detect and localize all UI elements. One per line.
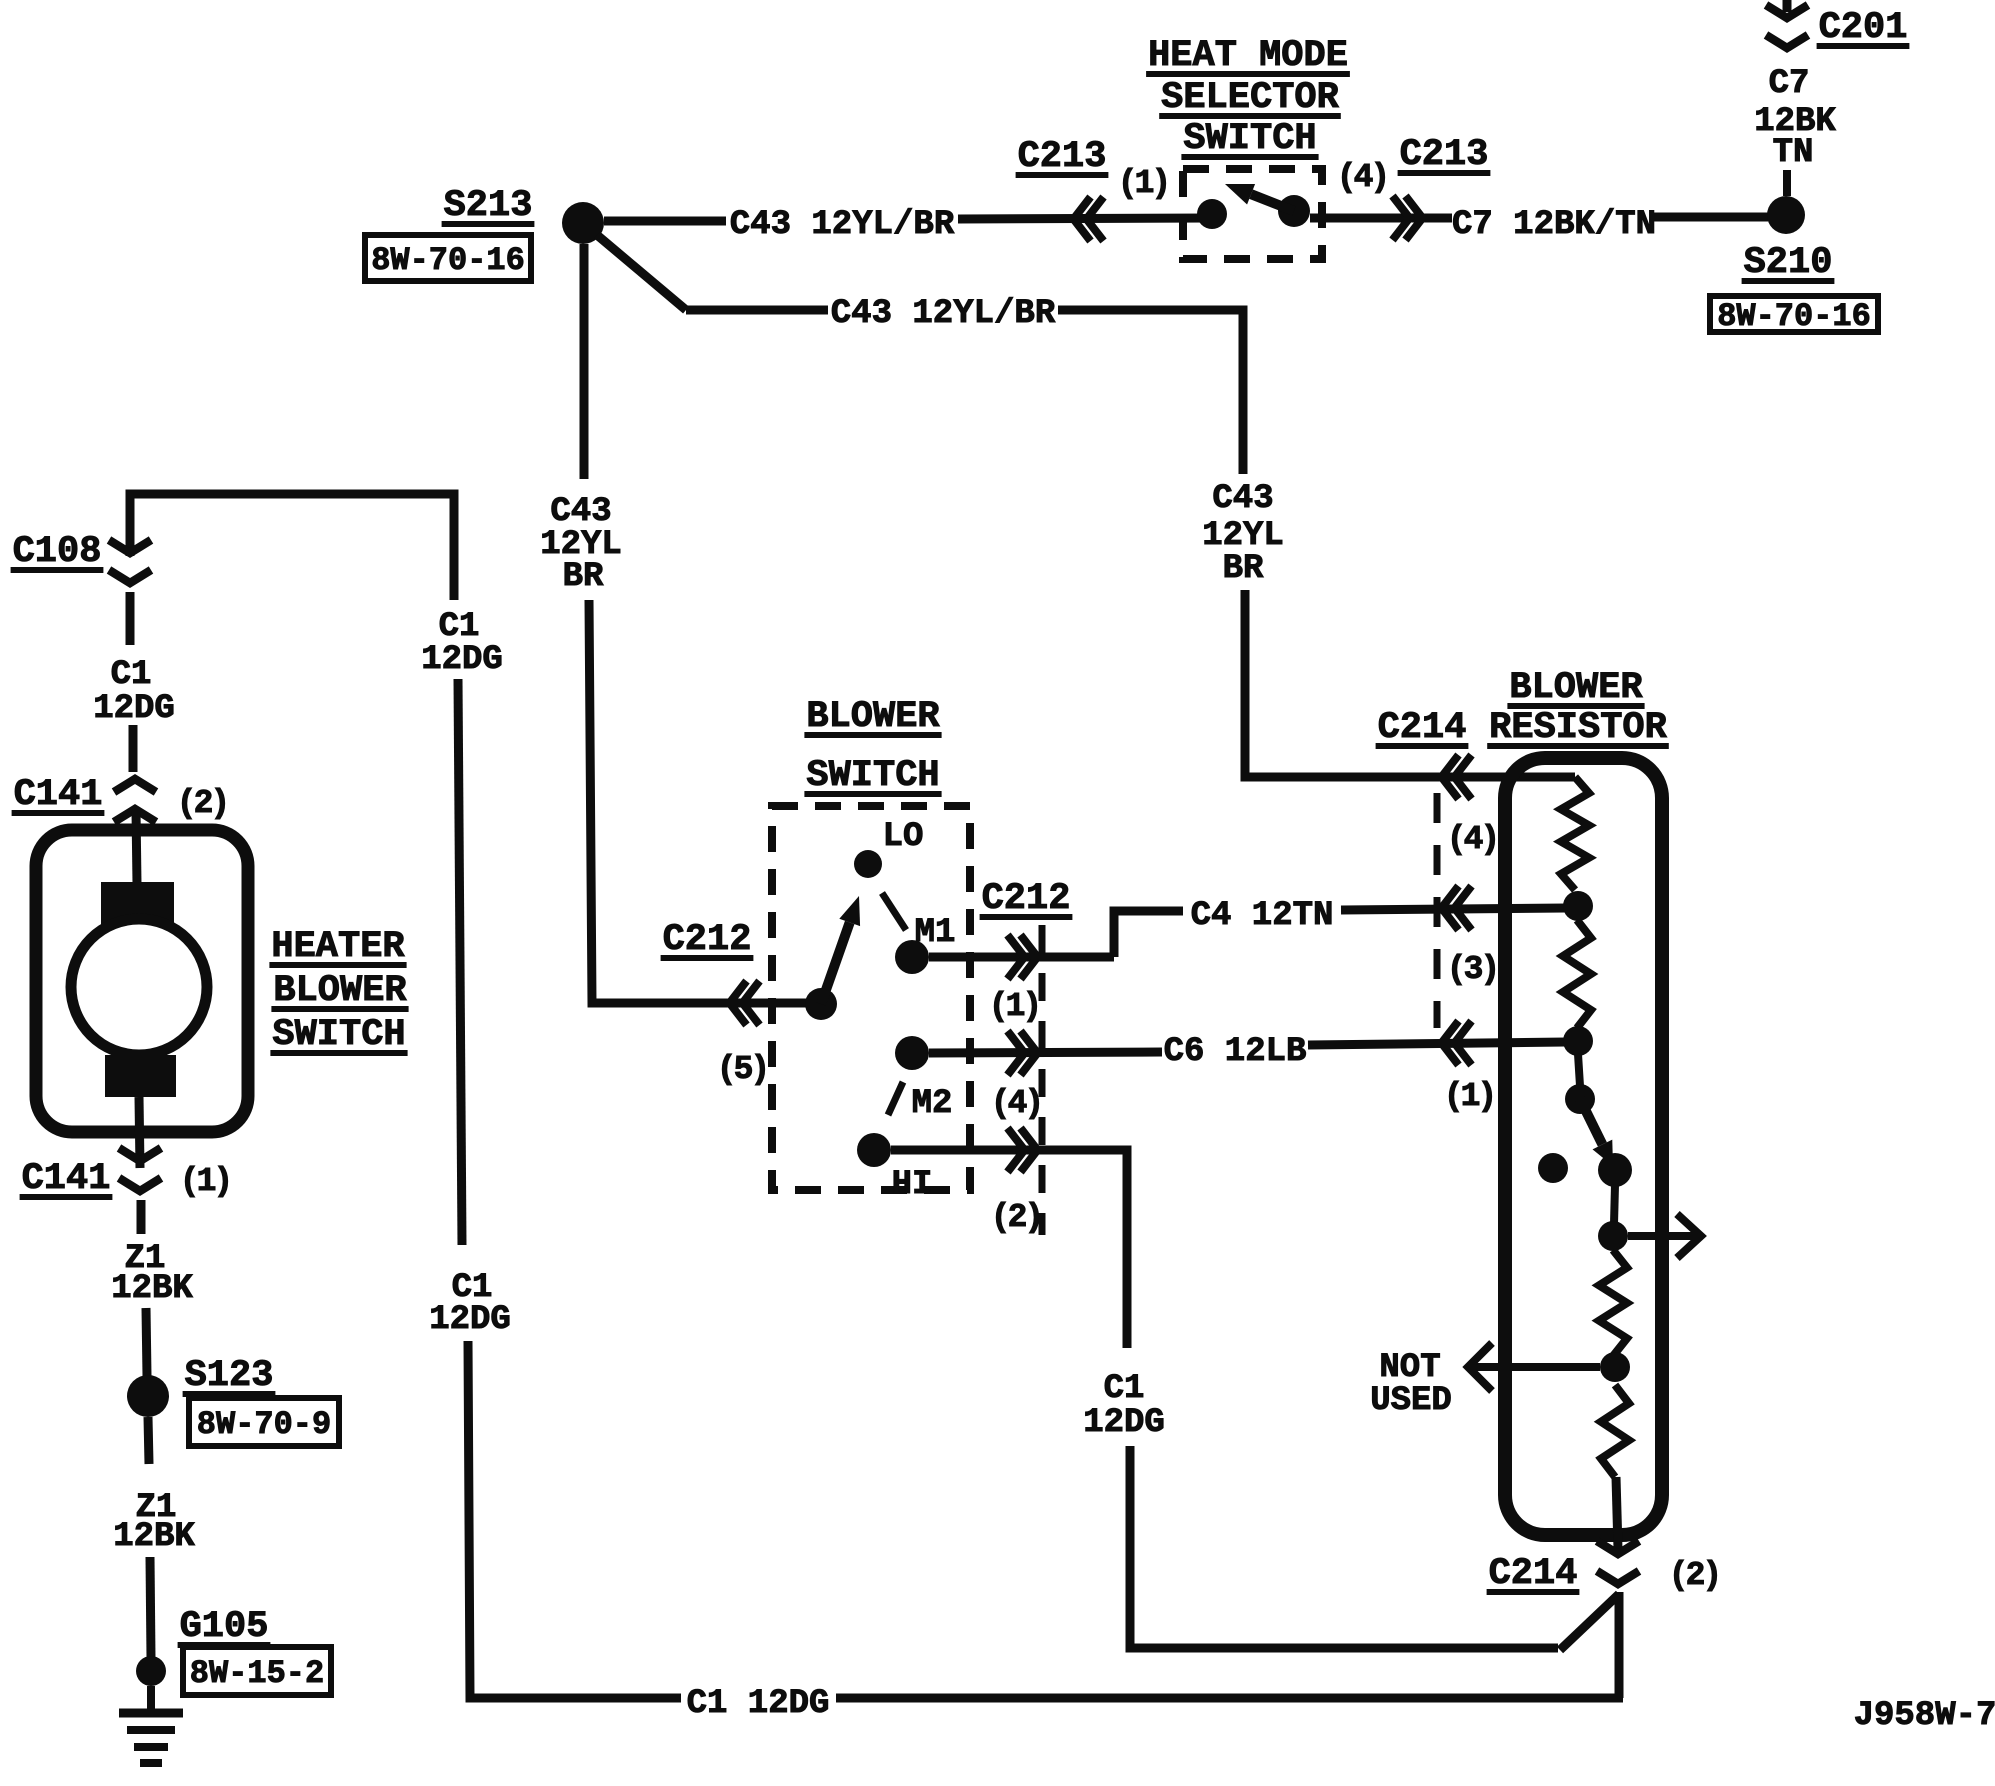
wire C43 drop to blower resistor	[1245, 590, 1575, 777]
wire label 12DG (C1 run upper)	[421, 641, 503, 679]
wire label C4 12TN	[1191, 897, 1334, 935]
resistor node 3	[1565, 1084, 1595, 1114]
pin number (5) C212	[717, 1051, 767, 1088]
svg-text:12BK: 12BK	[113, 1518, 195, 1556]
label SWITCH (blower)	[804, 755, 941, 797]
label C213 left	[1016, 136, 1109, 178]
svg-text:(4): (4)	[991, 1085, 1041, 1122]
svg-text:(4): (4)	[1337, 159, 1387, 196]
svg-text:BLOWER: BLOWER	[806, 696, 940, 738]
wire label C43 12YL/BR	[730, 206, 955, 244]
connector C108 chevron	[109, 540, 151, 583]
resistor node 6	[1600, 1352, 1630, 1382]
wire from C108 to C1 junction	[130, 494, 454, 600]
svg-text:BLOWER: BLOWER	[273, 970, 407, 1012]
wire label C43 (right drop)	[1212, 480, 1273, 518]
connector C212 pin 4 chevron	[1008, 1031, 1038, 1075]
label C214 bottom	[1487, 1553, 1580, 1595]
svg-text:HEAT MODE: HEAT MODE	[1148, 35, 1348, 77]
svg-text:8W-70-16: 8W-70-16	[371, 242, 525, 279]
wire C6 12LB right segment	[1308, 1042, 1566, 1045]
motor brush top	[101, 882, 174, 925]
pin number (4) C212	[991, 1085, 1041, 1122]
pin number (2) C214	[1669, 1557, 1719, 1594]
svg-text:C1: C1	[111, 656, 152, 694]
reference box 8W-70-16 (S210)	[1710, 296, 1878, 335]
wire C1 12DG to bottom	[468, 1341, 681, 1698]
node M2 dot	[895, 1036, 929, 1070]
svg-text:C1: C1	[1104, 1370, 1145, 1408]
wire stub above C201	[1783, 0, 1792, 12]
wire label 12YL (left drop)	[540, 526, 622, 564]
ground bar 1	[119, 1709, 183, 1718]
wire label C7 (C201 drop)	[1769, 65, 1810, 103]
connector C201 chevron	[1766, 5, 1808, 48]
selector switch arm	[1225, 184, 1294, 211]
wire M1 to C4 step	[1114, 911, 1183, 957]
wire label Z1 (upper)	[125, 1240, 166, 1278]
node HI dot	[857, 1133, 891, 1167]
selector switch pole dot left	[1197, 199, 1227, 229]
connector C213 pin 4 chevron	[1393, 196, 1423, 240]
sheet number J958W-7	[1854, 1697, 1995, 1735]
resistor element 2	[1563, 920, 1591, 1028]
wire below S123	[148, 1417, 149, 1464]
resistor node 1	[1563, 891, 1593, 921]
wire label TN (C201 drop)	[1773, 134, 1814, 172]
pin number (3) C214	[1447, 951, 1497, 988]
svg-text:(2): (2)	[991, 1199, 1041, 1236]
wire from M2	[929, 1052, 1162, 1053]
connector C212 pin 1 chevron	[1008, 935, 1038, 979]
label C212 left	[661, 919, 754, 961]
wire label C6 12LB	[1164, 1033, 1307, 1071]
wire label 12BK (upper)	[111, 1270, 193, 1308]
resistor element 1	[1561, 777, 1589, 890]
svg-text:C141: C141	[22, 1158, 111, 1200]
wire label 12DG (middle drop)	[1083, 1404, 1165, 1442]
wire from M1	[929, 953, 1114, 962]
resistor wire node2 to node3	[1578, 1054, 1580, 1086]
reference box 8W-70-16 (S213)	[365, 235, 531, 281]
svg-text:LO: LO	[883, 818, 924, 856]
svg-text:(1): (1)	[1118, 165, 1168, 202]
svg-text:C4 12TN: C4 12TN	[1191, 897, 1334, 935]
pin number (4) C214	[1447, 821, 1497, 858]
label M1	[915, 914, 956, 952]
wire label C1 (C1 run upper)	[439, 608, 480, 646]
pin number (1) C213	[1118, 165, 1168, 202]
wire C1 12DG bottom segment	[836, 1694, 1623, 1703]
reference box 8W-70-9 (S123)	[189, 1398, 339, 1446]
svg-text:(1): (1)	[989, 988, 1039, 1025]
connector C141 pin 1 chevron	[119, 1148, 161, 1191]
wire C43 12YL/BR branch right segment	[1058, 310, 1243, 474]
wire C43 12YL/BR mid segment	[958, 218, 1212, 219]
svg-text:(2): (2)	[177, 785, 227, 822]
wire label C1 12DG bottom	[687, 1685, 830, 1723]
label LO	[883, 818, 924, 856]
svg-text:USED: USED	[1370, 1382, 1452, 1420]
ground bar 3	[134, 1743, 168, 1751]
wire out of motor	[139, 1097, 140, 1168]
node M1 dot	[895, 940, 929, 974]
label S210	[1742, 242, 1835, 284]
wire from selector to C213 pin4	[1310, 214, 1452, 223]
svg-text:C212: C212	[982, 878, 1071, 920]
node S123 splice	[127, 1375, 169, 1417]
svg-text:C1 12DG: C1 12DG	[687, 1685, 830, 1723]
resistor element 3	[1599, 1250, 1627, 1356]
svg-text:12DG: 12DG	[93, 690, 175, 728]
wire label BR (right drop)	[1223, 550, 1264, 588]
wire to S123	[146, 1308, 147, 1376]
selector switch pole dot right	[1278, 195, 1310, 227]
label BLOWER (resistor)	[1507, 667, 1644, 709]
label C141 bottom	[20, 1158, 113, 1200]
svg-text:12BK: 12BK	[111, 1270, 193, 1308]
label C212 connector	[980, 878, 1073, 920]
resistor node 2	[1563, 1026, 1593, 1056]
blower resistor case	[1505, 758, 1662, 1535]
wire C7 12BK/TN right segment	[1652, 213, 1768, 222]
svg-text:RESISTOR: RESISTOR	[1489, 707, 1667, 749]
connector C214 pin 4 chevron	[1442, 755, 1472, 799]
ground bar 4	[140, 1759, 162, 1767]
motor brush bottom	[105, 1055, 176, 1097]
blower switch arm to LO	[821, 896, 860, 1004]
svg-text:C141: C141	[14, 774, 103, 816]
svg-text:C43 12YL/BR: C43 12YL/BR	[831, 295, 1056, 333]
svg-text:C7: C7	[1769, 65, 1810, 103]
label S123	[183, 1355, 276, 1397]
wire label 12BK (C201 drop)	[1754, 103, 1836, 141]
label SWITCH heat mode	[1181, 118, 1318, 160]
wire C214 pin2 down	[1615, 1592, 1624, 1698]
ground bar 2	[127, 1726, 175, 1734]
resistor isolated contact dot	[1538, 1153, 1568, 1183]
svg-text:(1): (1)	[1444, 1078, 1494, 1115]
connector C214 pin 2 chevron	[1597, 1541, 1639, 1584]
label S213	[442, 185, 535, 227]
wire C43 12YL/BR diagonal from S213	[597, 235, 686, 310]
blower switch pivot dot	[805, 988, 837, 1020]
label HEAT MODE	[1146, 35, 1350, 77]
svg-text:12DG: 12DG	[429, 1301, 511, 1339]
svg-text:C43 12YL/BR: C43 12YL/BR	[730, 206, 955, 244]
node S213 splice	[562, 202, 604, 244]
wire label C43 12YL/BR branch	[831, 295, 1056, 333]
svg-text:C201: C201	[1819, 7, 1908, 49]
wire label Z1 (lower)	[136, 1489, 177, 1527]
C214 connector dashed line	[1434, 793, 1441, 1028]
wire label 12YL (right drop)	[1202, 517, 1284, 555]
svg-text:C214: C214	[1489, 1553, 1578, 1595]
connector C214 pin 1 chevron	[1442, 1021, 1472, 1065]
wire to C141 pin2	[129, 725, 138, 772]
svg-text:TN: TN	[1773, 134, 1814, 172]
wire into heater blower motor	[136, 810, 137, 884]
wire label C43 (left drop)	[550, 493, 611, 531]
wire label C1 (left)	[111, 656, 152, 694]
svg-text:8W-15-2: 8W-15-2	[190, 1655, 324, 1692]
svg-text:12DG: 12DG	[1083, 1404, 1165, 1442]
dashed link M2 to HI	[888, 1082, 903, 1115]
wire C4 12TN right segment	[1341, 908, 1566, 910]
label C108	[11, 531, 104, 573]
wire C43 12YL/BR left segment	[604, 217, 726, 226]
wire below C141 pin1	[137, 1200, 146, 1234]
svg-text:C213: C213	[1018, 136, 1107, 178]
label C201	[1817, 7, 1910, 49]
dashed link LO to M1	[882, 893, 906, 930]
svg-text:BR: BR	[1223, 550, 1264, 588]
label G105	[178, 1606, 271, 1648]
NOT USED tap wire	[1468, 1343, 1600, 1391]
svg-text:SWITCH: SWITCH	[272, 1014, 405, 1056]
pin number (1) C212	[989, 988, 1039, 1025]
heater blower motor case	[36, 830, 248, 1132]
connector C213 pin 1 chevron	[1074, 197, 1104, 241]
svg-text:SWITCH: SWITCH	[806, 755, 939, 797]
label BLOWER (switch)	[804, 696, 941, 738]
svg-text:BLOWER: BLOWER	[1509, 667, 1643, 709]
wire C1 12DG long vertical	[458, 679, 462, 1245]
wire from HI	[891, 1150, 1127, 1348]
svg-text:SWITCH: SWITCH	[1183, 118, 1316, 160]
wire to G105	[150, 1557, 151, 1658]
svg-text:(2): (2)	[1669, 1557, 1719, 1594]
heat mode selector switch dashed box	[1183, 169, 1322, 259]
resistor tap arrow right	[1628, 1214, 1701, 1258]
wire label 12DG (C1 run lower)	[429, 1301, 511, 1339]
node G105	[136, 1656, 166, 1686]
wire label BR (left drop)	[563, 558, 604, 596]
wire label 12BK (lower)	[113, 1518, 195, 1556]
pin number (4) C213	[1337, 159, 1387, 196]
label HEATER	[269, 926, 406, 968]
wire label 12DG (left)	[93, 690, 175, 728]
wire C1 12DG middle drop lower	[1130, 1446, 1558, 1648]
label SELECTOR	[1159, 77, 1341, 119]
resistor switch arm	[1580, 1099, 1613, 1166]
svg-text:8W-70-9: 8W-70-9	[197, 1406, 331, 1443]
wire below C108	[126, 592, 135, 645]
label USED	[1370, 1382, 1452, 1420]
pin number (1) C214	[1444, 1078, 1494, 1115]
node LO dot	[854, 850, 882, 878]
label C213 right	[1398, 134, 1491, 176]
svg-text:C108: C108	[13, 531, 102, 573]
svg-text:HEATER: HEATER	[271, 926, 405, 968]
pin number (2) C212	[991, 1199, 1041, 1236]
svg-text:(1): (1)	[180, 1163, 230, 1200]
C212 connector dashed line	[1039, 925, 1046, 1235]
svg-text:(5): (5)	[717, 1051, 767, 1088]
resistor node 5	[1598, 1221, 1628, 1251]
svg-text:J958W-7: J958W-7	[1854, 1697, 1995, 1735]
connector C214 pin 3 chevron	[1442, 886, 1472, 930]
resistor exit wire	[1616, 1477, 1618, 1549]
svg-text:(4): (4)	[1447, 821, 1497, 858]
connector C141 pin 2 chevron	[114, 779, 156, 822]
connector C212 pin 5 chevron	[730, 981, 760, 1025]
svg-text:C212: C212	[663, 919, 752, 961]
svg-text:S123: S123	[185, 1355, 274, 1397]
pin number (2) C141	[177, 785, 227, 822]
wire C43 12YL/BR branch left segment	[686, 306, 828, 315]
svg-text:BR: BR	[563, 558, 604, 596]
motor body circle	[71, 919, 207, 1055]
svg-text:C213: C213	[1400, 134, 1489, 176]
svg-text:M2: M2	[912, 1085, 953, 1123]
svg-text:S210: S210	[1744, 242, 1833, 284]
node S210 splice	[1767, 196, 1805, 234]
wire label C7 12BK/TN	[1452, 206, 1656, 244]
label M2	[912, 1085, 953, 1123]
wire label C1 (C1 run lower)	[452, 1269, 493, 1307]
svg-text:C43: C43	[1212, 480, 1273, 518]
label SWITCH (heater)	[270, 1014, 407, 1056]
ground G105 stem	[147, 1686, 155, 1712]
svg-text:G105: G105	[180, 1606, 269, 1648]
reference box 8W-15-2 (G105)	[183, 1647, 331, 1695]
blower switch dashed box	[772, 806, 970, 1190]
svg-text:C6 12LB: C6 12LB	[1164, 1033, 1307, 1071]
svg-text:(3): (3)	[1447, 951, 1497, 988]
label C214 top	[1376, 707, 1469, 749]
pin number (1) C141	[180, 1163, 230, 1200]
svg-text:S213: S213	[444, 185, 533, 227]
svg-text:C214: C214	[1378, 707, 1467, 749]
label HI	[892, 1166, 933, 1204]
wire C43 12YL/BR down from S213	[580, 244, 589, 479]
wire label C1 (middle drop)	[1104, 1370, 1145, 1408]
label BLOWER (heater)	[271, 970, 408, 1012]
resistor element 4	[1601, 1385, 1629, 1477]
label NOT	[1379, 1349, 1440, 1387]
wire C43 drop to C212 pin5	[589, 600, 806, 1003]
resistor wire node4 to node5	[1614, 1185, 1615, 1224]
wire diagonal to C214 pin2	[1560, 1594, 1619, 1650]
connector C212 pin 2 chevron	[1008, 1128, 1038, 1172]
label RESISTOR	[1487, 707, 1669, 749]
svg-text:8W-70-16: 8W-70-16	[1717, 298, 1871, 335]
svg-text:HI: HI	[892, 1166, 933, 1204]
svg-text:SELECTOR: SELECTOR	[1161, 77, 1339, 119]
svg-text:12DG: 12DG	[421, 641, 503, 679]
resistor node 4	[1598, 1153, 1632, 1187]
svg-text:C7 12BK/TN: C7 12BK/TN	[1452, 206, 1656, 244]
label C141 top	[12, 774, 105, 816]
wire C7 12BK/TN drop to S210	[1783, 170, 1791, 196]
